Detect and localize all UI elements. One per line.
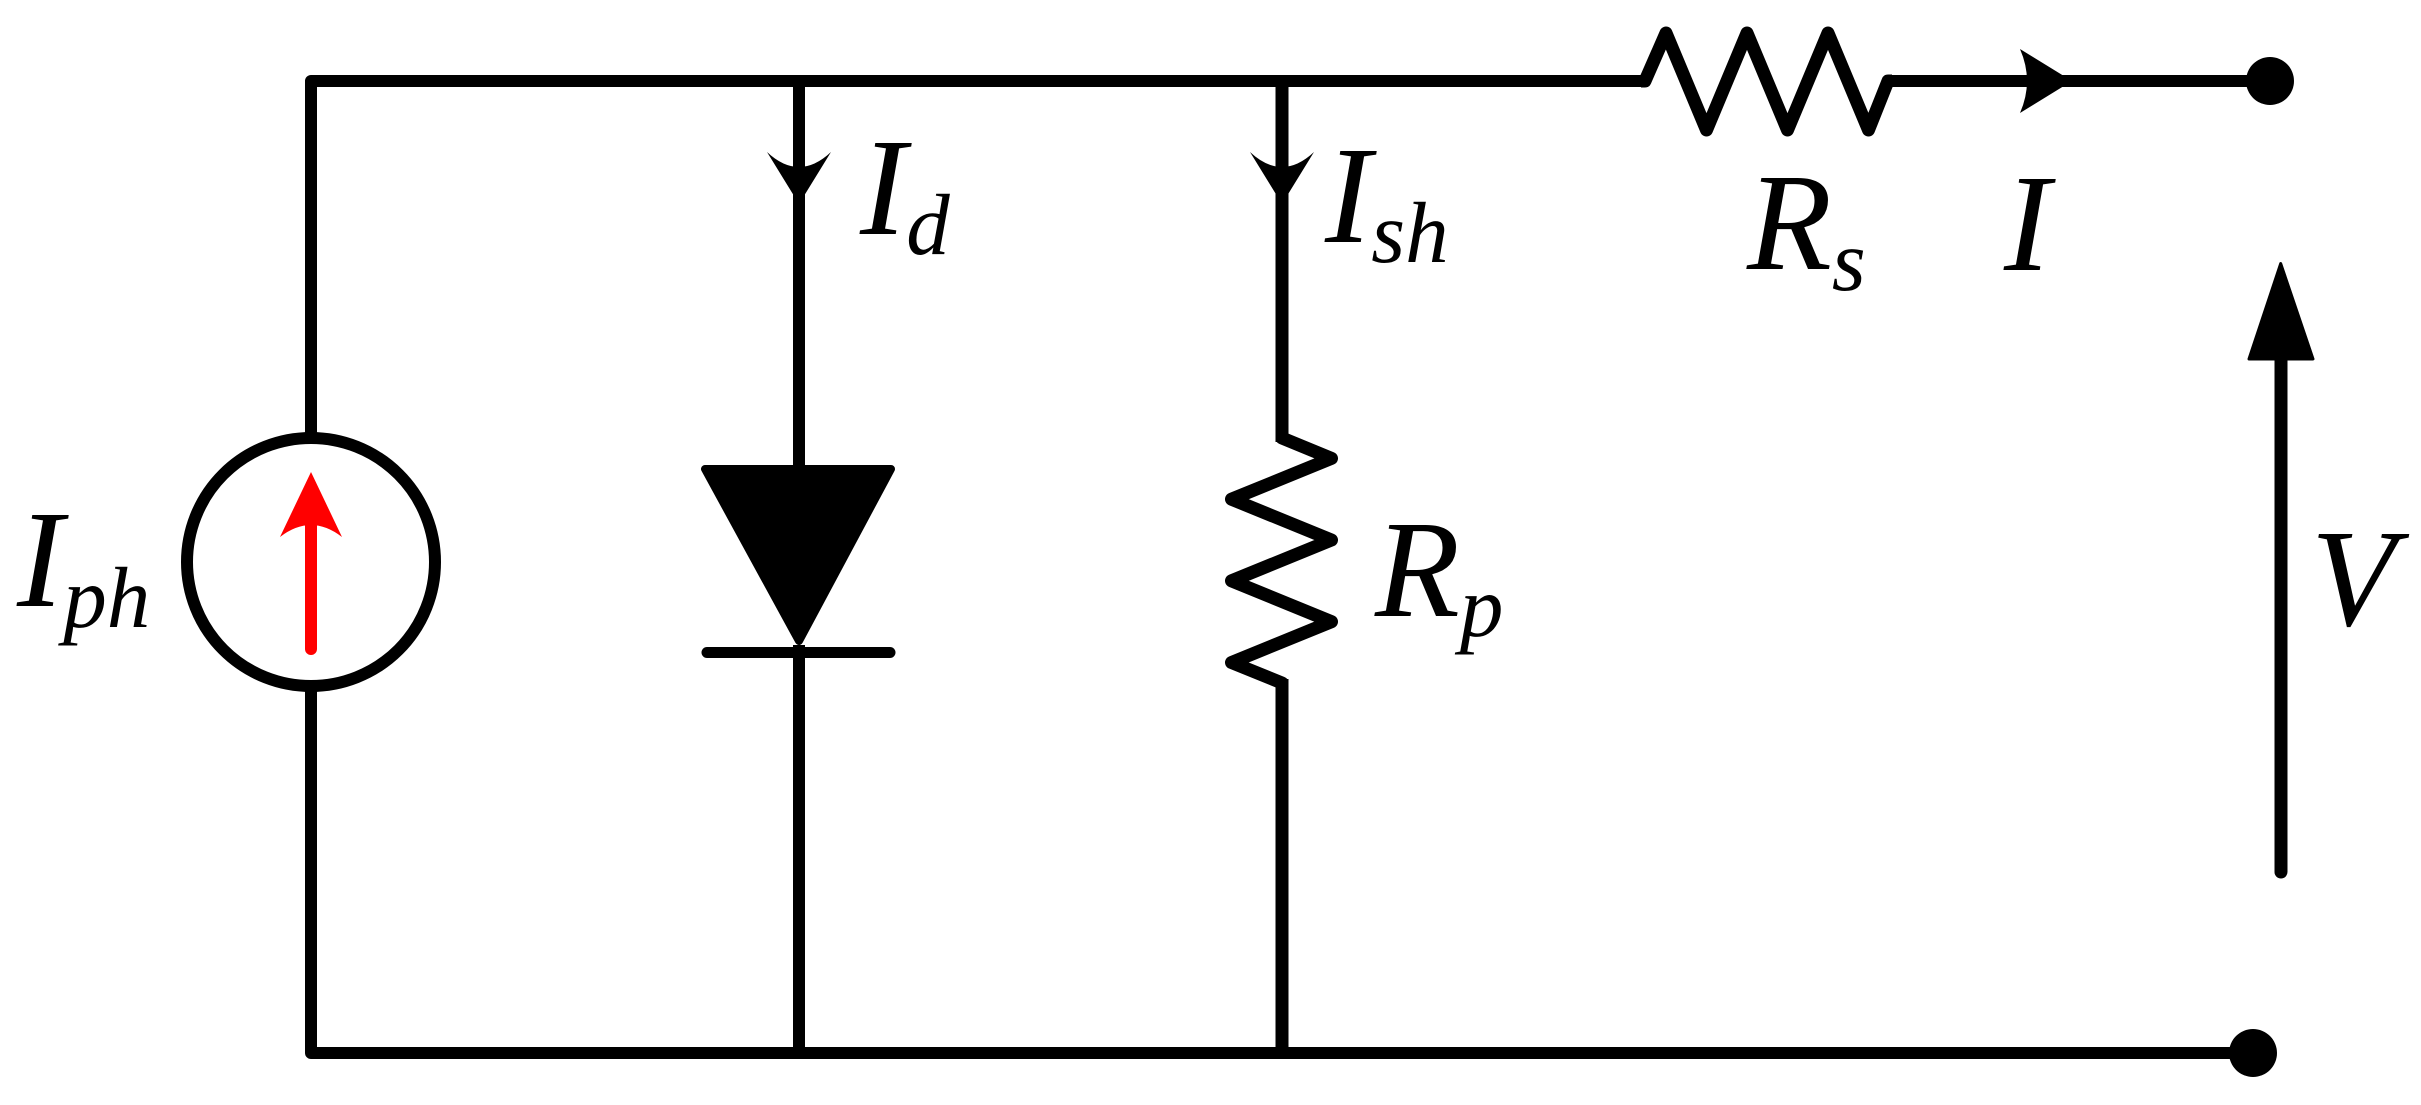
svg-text:Iph: Iph [16, 483, 150, 646]
resistor R_p [1232, 434, 1332, 687]
resistor R_s [1641, 33, 1892, 130]
wire shunt branch top [1276, 81, 1289, 442]
svg-text:I: I [2003, 147, 2056, 301]
current source I_ph circle [187, 438, 435, 686]
current source arrow (red) [280, 472, 342, 649]
node terminal bottom right [2229, 1029, 2277, 1077]
wire top bus (left corner to Rs) [311, 81, 1648, 434]
current arrow I (right) [2020, 49, 2072, 113]
wire left vertical bottom + bottom bus [311, 686, 2253, 1053]
wire diode branch bottom [793, 645, 805, 1053]
svg-text:Ish: Ish [1324, 119, 1449, 281]
wire diode branch top [793, 81, 805, 470]
current arrowhead I_sh [1250, 152, 1314, 204]
voltage arrow V [2249, 264, 2313, 872]
wire Rs to top terminal [1885, 75, 2270, 87]
wire shunt branch bottom [1276, 679, 1289, 1053]
node terminal top right [2246, 57, 2294, 105]
svg-text:V: V [2311, 502, 2410, 656]
svg-text:Rp: Rp [1374, 493, 1503, 655]
svg-text:Rs: Rs [1746, 146, 1866, 309]
current arrowhead I_d [767, 152, 831, 204]
svg-text:Id: Id [859, 111, 950, 273]
diode D1 [705, 469, 891, 653]
